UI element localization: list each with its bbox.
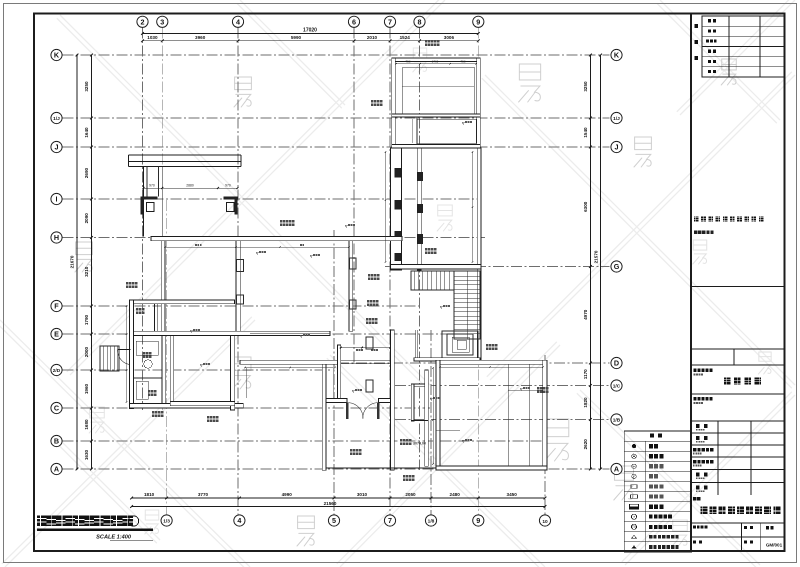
svg-text:K: K [54,51,60,60]
svg-text:4970: 4970 [583,309,588,320]
svg-text:2690: 2690 [84,167,89,178]
svg-text:1790: 1790 [84,314,89,325]
right axis bubbles [611,49,622,474]
svg-text:2880: 2880 [186,183,194,187]
bottom dimension lines [130,492,546,508]
plan annotations [126,40,548,455]
svg-text:3: 3 [160,17,164,26]
left axis bubbles [51,49,62,474]
svg-text:21560: 21560 [324,501,337,506]
svg-text:SCALE 1:400: SCALE 1:400 [96,535,132,541]
center room bottom wall [170,402,235,406]
svg-text:5: 5 [332,516,336,525]
top-right block outer walls [392,58,481,148]
svg-text:1030: 1030 [147,35,158,40]
C axis wall (bottom of left rooms) [130,404,244,409]
SE room interior lines [436,364,543,466]
svg-text:C: C [54,404,59,413]
signature table bottom [691,421,785,495]
south wall with french doors [326,399,394,403]
svg-text:970: 970 [225,183,231,187]
svg-text:1960: 1960 [84,383,89,394]
svg-text:G: G [614,262,620,271]
svg-text:6: 6 [352,17,356,26]
top-right block inner rooms [395,60,477,145]
svg-text:1540: 1540 [583,127,588,138]
svg-text:1170: 1170 [583,369,588,379]
svg-text:6300: 6300 [583,201,588,212]
svg-text:2000: 2000 [84,346,89,357]
legend table [624,431,691,552]
title block dividers [691,287,785,365]
svg-text:9: 9 [476,17,480,26]
title block bottom grid [691,523,785,551]
svg-text:2050: 2050 [405,492,416,497]
svg-text:1/3: 1/3 [163,518,170,524]
entry door [117,350,130,365]
H axis main wall [151,237,402,241]
top axis bubbles [137,16,484,27]
svg-text:2480: 2480 [450,492,461,497]
signature table top [695,16,786,77]
L-column left at I axis [141,197,158,215]
corridor east wall [417,148,423,270]
spiral stair nested rects [416,330,478,360]
left dimension lines [70,54,93,471]
svg-text:1630: 1630 [84,449,89,460]
drawing title bottom-left [37,516,153,541]
svg-text:1760: 1760 [432,60,439,64]
svg-text:J: J [55,143,59,152]
wall objects on axis6 wall [350,258,374,392]
top dimension lines [141,28,480,43]
svg-text:750: 750 [460,60,465,64]
svg-text:9: 9 [476,516,480,525]
porch band top-left [129,155,242,167]
L-column right at I axis [224,197,238,215]
right dimension lines [583,54,602,471]
svg-text:3450: 3450 [507,492,518,497]
svg-text:8: 8 [418,17,422,26]
column dimension line [143,183,239,189]
center room west wall [170,336,174,404]
svg-text:3010: 3010 [357,492,368,497]
svg-text:2: 2 [141,17,145,26]
svg-text:1/J: 1/J [613,116,620,122]
porch columns verticals [144,167,163,237]
stair horizontal run [411,271,454,290]
svg-text:1640: 1640 [84,127,89,138]
svg-text:1680: 1680 [84,419,89,430]
more interior dims [126,151,474,465]
svg-text:7: 7 [388,516,392,525]
svg-text:D: D [614,359,619,368]
terrace west wall [322,364,326,470]
svg-text:21670: 21670 [70,255,75,268]
svg-text:7: 7 [388,17,392,26]
center room east wall [231,336,235,411]
svg-text:K: K [614,51,620,60]
hall east wall [477,148,481,360]
legend labels [649,444,679,549]
svg-text:B: B [54,437,59,446]
terrace south wall [326,467,436,469]
svg-text:7: 7 [633,515,635,519]
svg-text:3074.00: 3074.00 [413,442,426,446]
left block partitions [134,304,166,404]
D axis wall center [240,360,390,364]
svg-text:A: A [614,465,619,474]
svg-text:H: H [54,233,59,242]
stamp note [694,217,763,235]
svg-text:1/J: 1/J [53,116,60,122]
partition wall axis 4 [236,241,244,334]
elevation marks [190,121,530,443]
vertical wall x390 lower [391,330,395,470]
svg-text:2010: 2010 [367,35,378,40]
legend symbols [630,444,639,548]
project name box [691,369,785,422]
svg-text:I: I [56,195,58,204]
living room left wall [161,241,165,334]
bottom axis bubbles [161,515,551,526]
interior small dims [164,244,544,368]
svg-text:4: 4 [236,17,240,26]
title block left edge [690,14,692,552]
svg-text:3250: 3250 [84,81,89,92]
partition wall axis 6 [349,241,353,332]
G axis wall [391,265,481,270]
svg-text:F: F [54,302,59,311]
french-door room west wall [337,345,340,402]
svg-text:1/B: 1/B [613,417,621,423]
svg-text:10: 10 [542,519,548,525]
entry exterior stair [100,346,119,371]
svg-text:1810: 1810 [144,492,155,497]
stair vertical run [454,271,480,339]
E axis wall [130,331,331,335]
left block west wall [130,300,134,409]
svg-text:A: A [54,465,59,474]
svg-text:21570: 21570 [593,250,598,263]
svg-text:3250: 3250 [583,81,588,92]
svg-text:2620: 2620 [583,439,588,450]
D axis wall right segment [414,358,480,361]
french-door room top dims [340,347,391,349]
vertical axis grid lines [143,28,546,515]
svg-text:J: J [615,143,619,152]
svg-text:3006: 3006 [444,35,455,40]
svg-text:1820: 1820 [583,397,588,408]
svg-text:750: 750 [405,60,410,64]
french doors [346,403,379,420]
svg-text:1/8: 1/8 [428,518,435,524]
left block top wall [130,300,235,304]
corridor west wall with pilasters [391,148,402,270]
horizontal axis grid lines [63,55,610,469]
svg-text:970: 970 [149,183,155,187]
svg-text:3960: 3960 [195,35,206,40]
svg-text:2/D: 2/D [53,368,61,374]
drawing title in block [691,497,785,523]
big SE room walls [436,360,547,470]
svg-text:1/C: 1/C [613,383,621,389]
svg-text:3770: 3770 [198,492,209,497]
svg-text:17020: 17020 [303,28,317,34]
small room walls (1/C area) [411,370,428,466]
svg-text:4: 4 [237,516,241,525]
watermark logos [75,48,771,546]
svg-text:GM/001: GM/001 [766,543,783,548]
svg-text:5990: 5990 [291,35,302,40]
svg-text:E: E [54,330,59,339]
svg-text:3210: 3210 [84,266,89,277]
svg-text:1524: 1524 [400,35,411,40]
svg-text:2090: 2090 [84,213,89,224]
svg-text:4990: 4990 [282,492,293,497]
